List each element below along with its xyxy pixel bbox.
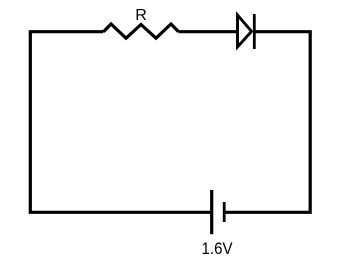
- battery B1 short plate (negative): [223, 202, 226, 222]
- wire: resistor to diode anode: [179, 30, 238, 33]
- wire: diode cathode, down right side, along bottom to battery negative plate: [226, 32, 311, 213]
- svg-text:1.6V: 1.6V: [202, 239, 234, 258]
- diode D1 triangle (anode): [238, 15, 252, 47]
- diode D1 cathode bar: [253, 14, 256, 49]
- svg-text:R: R: [135, 7, 147, 24]
- resistor R1 (zigzag): [104, 24, 179, 38]
- battery B1 long plate (positive): [210, 190, 213, 234]
- wire: left loop from resistor start, down left side, along bottom to battery positive plate: [30, 32, 211, 213]
